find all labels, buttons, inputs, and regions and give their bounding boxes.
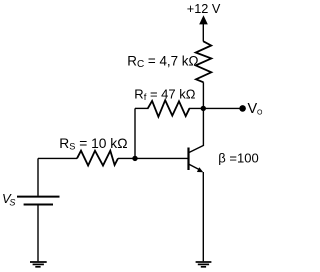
- svg-text:V: V: [248, 101, 258, 117]
- svg-text:S: S: [9, 197, 15, 207]
- svg-text:β =100: β =100: [218, 151, 258, 166]
- svg-text:+12 V: +12 V: [187, 2, 221, 16]
- svg-text:O: O: [257, 109, 263, 116]
